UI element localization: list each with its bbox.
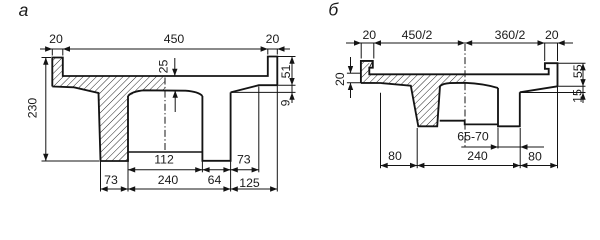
bottom dim row1 fig a: 112 64 73 bbox=[128, 169, 259, 171]
transverse rib edges fig b bbox=[440, 121, 498, 125]
transverse rib edge fig a bbox=[128, 151, 202, 153]
underside right slope fig b bbox=[520, 86, 558, 92]
underside left + rib1 fig b bbox=[361, 83, 440, 126]
svg-text:б: б bbox=[328, 0, 339, 20]
svg-text:240: 240 bbox=[467, 149, 488, 163]
section hatch fig b bbox=[361, 61, 465, 126]
svg-text:64: 64 bbox=[208, 173, 222, 187]
notch diagonal left fig b bbox=[369, 61, 373, 68]
svg-text:20: 20 bbox=[266, 32, 280, 46]
dim 25 slab thickness fig a bbox=[174, 58, 176, 76]
dim 65-70 fig b bbox=[461, 146, 544, 148]
dim 51 and 9 right fig a bbox=[291, 57, 293, 104]
svg-text:112: 112 bbox=[154, 152, 174, 166]
svg-text:20: 20 bbox=[545, 28, 559, 42]
top dimension line fig b: 20 450/2 360/2 20 bbox=[346, 42, 573, 44]
svg-text:а: а bbox=[19, 0, 29, 20]
bottom dim row fig b: 80 240 80 bbox=[381, 165, 558, 167]
axis dash-dot fig a bbox=[164, 78, 166, 153]
bottom dim row2 fig a: 73 240 125 bbox=[101, 188, 278, 190]
rib2 fig b bbox=[498, 88, 520, 126]
axis dash-dot fig b bbox=[464, 44, 466, 148]
svg-text:450: 450 bbox=[164, 32, 185, 46]
dim 55 and 15 right fig b bbox=[582, 63, 584, 103]
svg-text:20: 20 bbox=[333, 72, 347, 86]
svg-text:55: 55 bbox=[571, 64, 585, 78]
main outline fig b bbox=[361, 61, 558, 86]
svg-text:73: 73 bbox=[104, 173, 118, 187]
svg-text:80: 80 bbox=[528, 149, 542, 163]
svg-text:360/2: 360/2 bbox=[495, 28, 526, 42]
main outline fig a bbox=[52, 57, 277, 87]
svg-text:25: 25 bbox=[157, 60, 171, 74]
svg-text:65-70: 65-70 bbox=[457, 130, 489, 144]
svg-text:80: 80 bbox=[388, 149, 402, 163]
svg-text:51: 51 bbox=[279, 65, 293, 79]
svg-text:73: 73 bbox=[237, 152, 251, 166]
extension lines bottom fig a bbox=[100, 161, 102, 192]
svg-text:240: 240 bbox=[158, 173, 179, 187]
void ceiling fig b bbox=[440, 83, 498, 88]
extension lines bottom fig b bbox=[380, 93, 382, 168]
svg-text:20: 20 bbox=[362, 28, 376, 42]
dim 230 left fig a bbox=[45, 58, 47, 162]
top dimension line fig a: 20 450 20 bbox=[40, 48, 290, 50]
svg-text:9: 9 bbox=[279, 99, 293, 106]
svg-text:450/2: 450/2 bbox=[402, 28, 433, 42]
svg-text:15: 15 bbox=[570, 89, 584, 103]
dim 20 vertical left fig b bbox=[350, 57, 352, 73]
svg-text:230: 230 bbox=[26, 98, 40, 119]
svg-text:125: 125 bbox=[239, 176, 260, 190]
section hatch fig a bbox=[52, 58, 165, 162]
svg-text:20: 20 bbox=[49, 32, 63, 46]
